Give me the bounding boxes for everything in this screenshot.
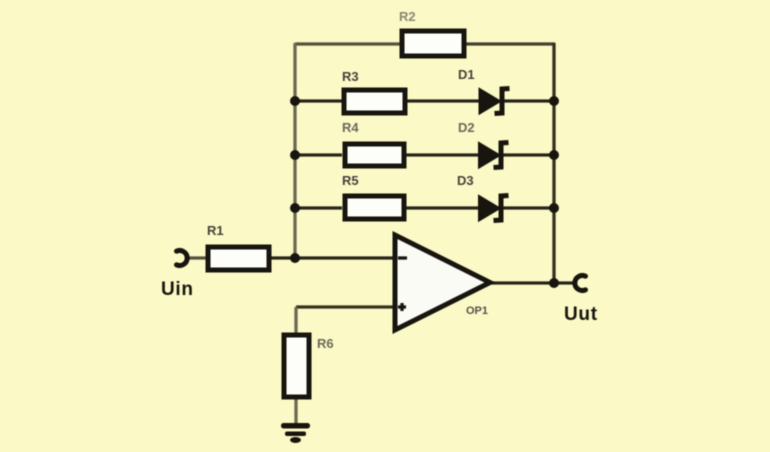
wire op-amp noninverting input horizontal <box>296 305 394 308</box>
node D2 right <box>549 150 559 160</box>
resistor R4 <box>345 144 404 166</box>
svg-text:R4: R4 <box>342 120 359 135</box>
wire right bus vertical <box>552 43 555 283</box>
resistor R3 <box>344 90 405 113</box>
wire node to output terminal <box>554 281 576 284</box>
node R4 left <box>290 150 300 160</box>
wire left bus vertical <box>293 43 296 259</box>
node D1 right <box>549 96 559 106</box>
svg-text:D1: D1 <box>458 67 475 82</box>
node input junction <box>290 253 300 263</box>
wire R5 row left <box>295 206 342 209</box>
wire R5 to D3 <box>406 206 479 209</box>
output terminal Uut <box>575 276 586 291</box>
svg-text:D2: D2 <box>458 120 475 135</box>
op-amp minus sign <box>398 256 407 259</box>
svg-text:R2: R2 <box>399 9 416 24</box>
wire D2 to right bus <box>502 153 554 156</box>
wire top rail left segment <box>295 42 400 45</box>
diode D2 (zener) <box>479 143 509 168</box>
svg-text:R5: R5 <box>342 173 359 188</box>
svg-text:R1: R1 <box>207 223 224 238</box>
wire D1 to right bus <box>503 99 554 102</box>
svg-text:OP1: OP1 <box>466 305 488 317</box>
op-amp plus sign <box>398 305 406 308</box>
ground <box>281 423 310 443</box>
wire D3 to right bus <box>502 206 554 209</box>
node R5 left <box>290 203 300 213</box>
node D3 right <box>549 203 559 213</box>
resistor R2 <box>402 31 464 56</box>
wire noninverting down to R6 <box>294 307 297 334</box>
wire top rail right segment <box>465 42 555 45</box>
wire R3 row left <box>295 99 342 102</box>
svg-text:R6: R6 <box>317 336 334 351</box>
node R3 left <box>290 96 300 106</box>
wire R1 to op-amp inverting input <box>270 256 394 259</box>
diode D3 (zener) <box>479 196 509 221</box>
resistor R6 (vertical) <box>284 335 309 397</box>
wire R4 row left <box>295 153 342 156</box>
wire op-amp output to node <box>490 281 554 284</box>
op-amp OP1 <box>395 235 490 330</box>
input terminal Uin <box>177 250 188 265</box>
wire R6 to ground <box>294 398 297 424</box>
node output junction <box>549 278 559 288</box>
svg-text:Uin: Uin <box>161 279 194 300</box>
resistor R5 <box>345 196 404 219</box>
wire input terminal to R1 <box>186 256 207 259</box>
svg-text:D3: D3 <box>457 173 474 188</box>
diode D1 (zener) <box>480 89 510 114</box>
resistor R1 <box>208 247 269 270</box>
wire R3 to D1 <box>407 99 480 102</box>
svg-text:R3: R3 <box>342 69 359 84</box>
svg-text:Uut: Uut <box>564 304 598 325</box>
wire R4 to D2 <box>406 153 479 156</box>
